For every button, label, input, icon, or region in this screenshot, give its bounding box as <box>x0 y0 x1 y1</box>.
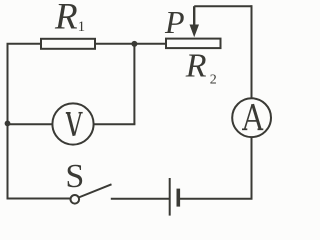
switch S pivot circle <box>71 195 80 204</box>
wire: junction down to voltmeter branch <box>133 44 135 125</box>
wire: R1 to R2 horizontal <box>96 43 165 45</box>
wire: bottom left horizontal <box>7 198 71 200</box>
switch S lever <box>79 184 112 197</box>
node dot on left rail <box>5 121 11 127</box>
letter V (drawn) <box>66 113 83 136</box>
svg-text:R: R <box>185 47 207 84</box>
letter A (drawn) <box>242 104 263 129</box>
wire: top-left horizontal to R1 <box>7 43 42 45</box>
battery negative plate (long thin) <box>169 178 171 216</box>
wire: right rail lower <box>251 138 253 200</box>
svg-text:S: S <box>65 158 84 195</box>
svg-text:2: 2 <box>210 73 217 88</box>
wire: left rail vertical <box>7 44 9 199</box>
wiper arrowhead <box>190 25 200 38</box>
node junction dot <box>131 41 137 47</box>
wire: voltmeter left lead <box>8 123 54 125</box>
wire: bottom right horizontal to battery <box>179 198 253 200</box>
svg-text:1: 1 <box>78 19 86 35</box>
wire: battery to switch horizontal <box>111 198 170 200</box>
wire: right rail upper <box>251 5 253 98</box>
ammeter A <box>232 98 271 137</box>
wiper arrow P stem <box>193 6 195 26</box>
resistor R1 <box>41 39 95 49</box>
voltmeter V <box>52 103 93 144</box>
wire: wiper top horizontal <box>194 5 251 7</box>
svg-text:P: P <box>164 4 185 40</box>
wire: voltmeter right lead <box>93 123 135 125</box>
svg-text:R: R <box>54 0 78 38</box>
battery positive plate (short thick) <box>177 189 181 207</box>
potentiometer R2 <box>166 39 221 49</box>
